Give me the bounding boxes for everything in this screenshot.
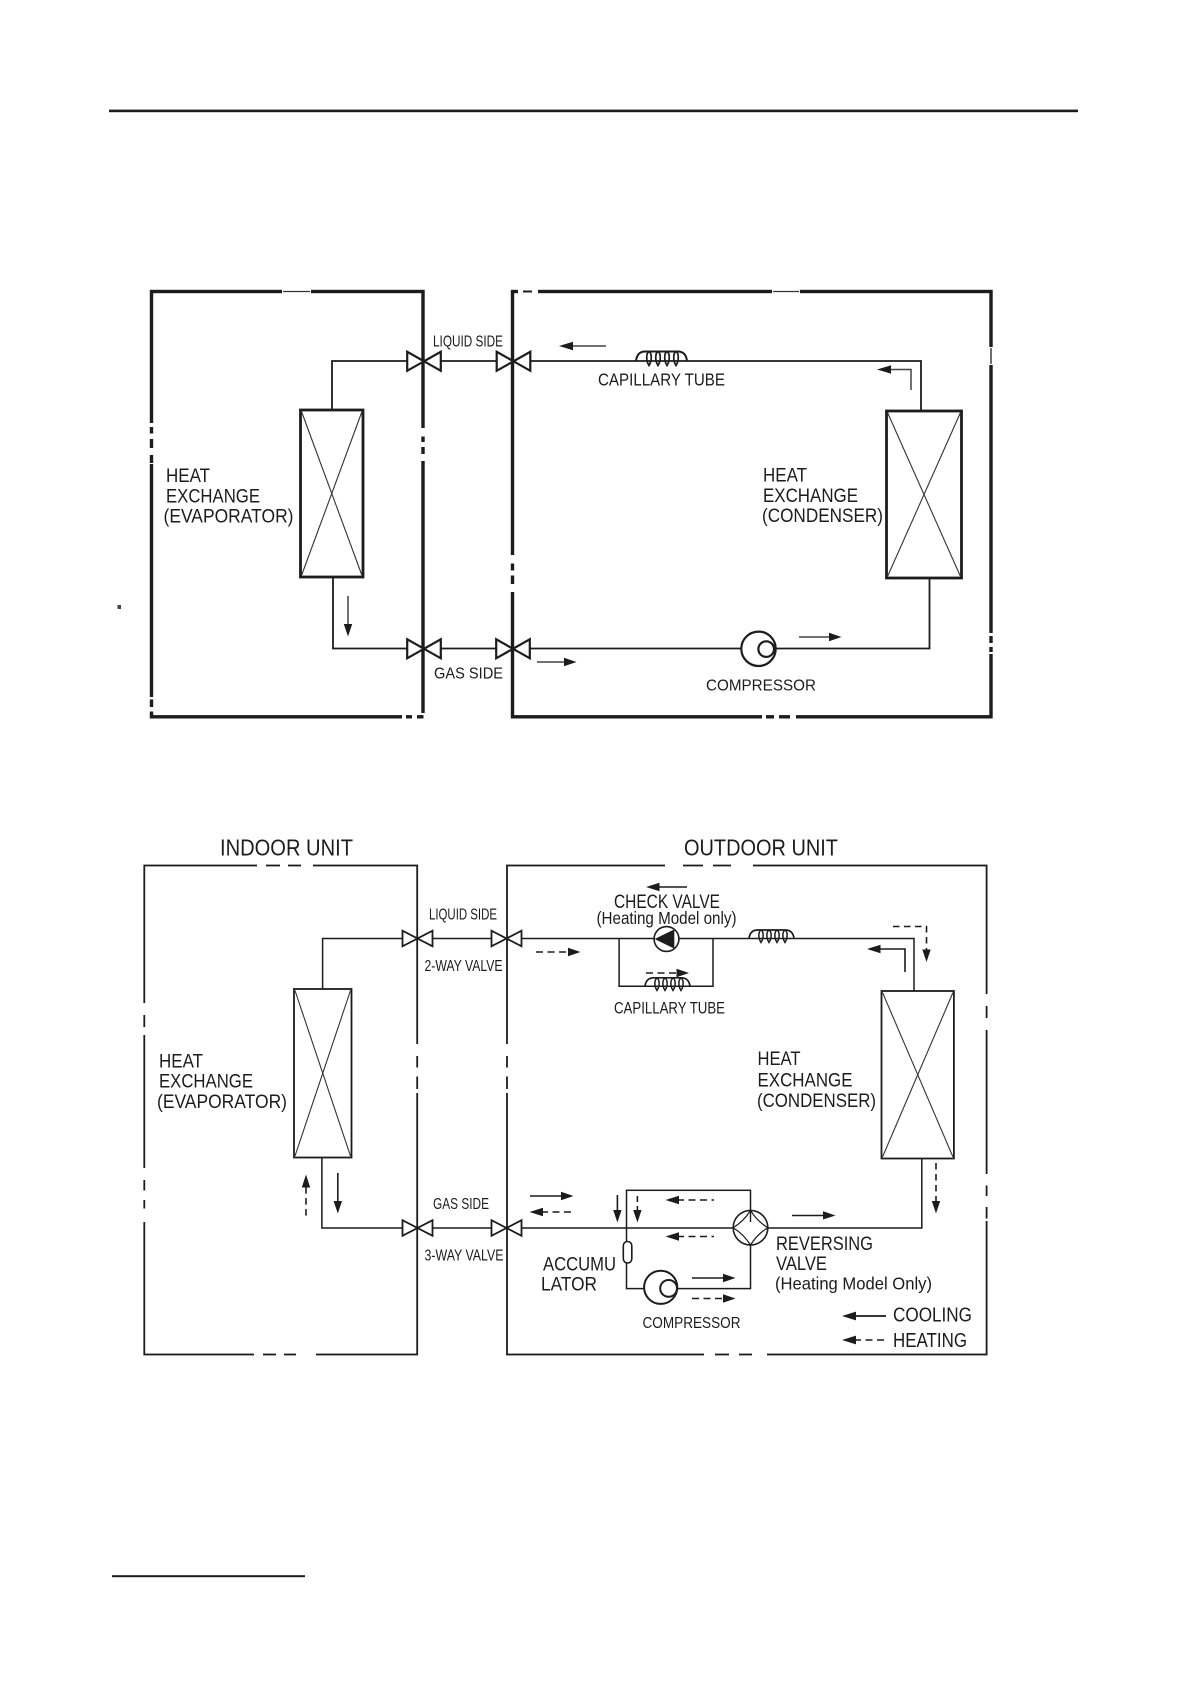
svg-text:(Heating Model only): (Heating Model only) <box>597 908 737 928</box>
indoor box break: bottom edge (fig2) <box>254 1352 316 1357</box>
svg-text:INDOOR UNIT: INDOOR UNIT <box>220 835 353 861</box>
dashed left arrow in loop top (heating) <box>666 1196 715 1204</box>
reversing valve loop rectangle (fig2) <box>627 1190 751 1288</box>
svg-text:2-WAY VALVE: 2-WAY VALVE <box>425 958 503 975</box>
svg-text:(Heating Model Only): (Heating Model Only) <box>775 1274 932 1294</box>
outdoor box break: right edge upper <box>987 347 995 365</box>
indoor box break: bottom edge near right corner <box>402 713 427 720</box>
gas line pipe (fig1) <box>333 577 930 649</box>
reversing valve (fig2) <box>733 1210 768 1245</box>
compressor (fig1) <box>741 632 775 666</box>
indoor box break: top edge <box>282 288 311 295</box>
outdoor box break: top edge <box>772 288 800 295</box>
indoor unit box (fig2) <box>144 866 417 1355</box>
indoor box break: top edge (fig2) <box>257 863 313 868</box>
outdoor unit box (fig2) <box>507 866 987 1355</box>
svg-text:(CONDENSER): (CONDENSER) <box>762 506 883 527</box>
svg-text:REVERSING: REVERSING <box>776 1234 873 1255</box>
capillary tube coil (fig1) <box>636 352 687 366</box>
svg-text:(EVAPORATOR): (EVAPORATOR) <box>157 1092 287 1113</box>
indoor box break: left edge middle <box>148 423 156 464</box>
indoor box break: left edge upper (fig2) <box>141 1003 148 1035</box>
dashed left arrow after 3-way valve (heating) <box>530 1208 575 1216</box>
liquid line pipe (fig2) <box>323 939 914 992</box>
indoor box break: right edge (fig2) <box>414 1044 421 1093</box>
svg-text:LATOR: LATOR <box>541 1274 597 1295</box>
liquid line pipe (fig1) <box>332 361 921 411</box>
heat exchanger evaporator (fig1) <box>301 410 364 577</box>
outdoor unit box (fig1) <box>513 292 992 717</box>
2-way service valve, liquid side (fig1) <box>407 352 441 371</box>
svg-text:ACCUMU: ACCUMU <box>543 1254 616 1275</box>
indoor box break: left edge lower (fig2) <box>141 1168 148 1222</box>
indoor box break: right edge below liquid valve <box>419 428 427 461</box>
outdoor valve, liquid side (fig2) <box>492 931 522 947</box>
outdoor valve, gas side (fig2) <box>492 1220 522 1236</box>
outdoor box break: bottom edge (fig2) <box>704 1352 767 1357</box>
svg-text:LIQUID SIDE: LIQUID SIDE <box>433 334 503 351</box>
solid left arrow above check valve (cooling flow) <box>646 883 687 891</box>
svg-text:HEAT: HEAT <box>166 466 210 487</box>
legend HEATING arrow <box>842 1336 886 1345</box>
solid right arrow after 3-way valve (cooling) <box>530 1192 574 1200</box>
compressor (fig2) <box>644 1271 677 1304</box>
3-way service valve, gas side (fig1) <box>407 639 441 658</box>
stray dot artifact <box>118 605 122 609</box>
accumulator (fig2) <box>623 1242 632 1264</box>
capillary tube coil in bypass (fig2) <box>645 978 690 991</box>
dashed down arrow right of condenser (heating) <box>932 1163 940 1214</box>
dashed right arrow from compressor (heating) <box>692 1294 736 1302</box>
svg-text:EXCHANGE: EXCHANGE <box>763 486 858 507</box>
heat exchanger condenser (fig1) <box>887 411 962 578</box>
outdoor box break: top edge near left corner <box>518 288 538 295</box>
outdoor box break: right edge upper (fig2) <box>983 994 990 1030</box>
outdoor box break: left edge <box>509 555 517 592</box>
down flow arrow below evaporator (fig1) <box>344 596 352 637</box>
svg-text:HEAT: HEAT <box>763 466 807 487</box>
svg-text:3-WAY VALVE: 3-WAY VALVE <box>425 1248 504 1265</box>
svg-text:EXCHANGE: EXCHANGE <box>166 486 260 507</box>
solid down arrow into accumulator line (cooling) <box>613 1195 621 1223</box>
outdoor valve, liquid side (fig1) <box>497 352 531 371</box>
footnote rule <box>112 1575 305 1577</box>
outdoor box break: left edge (fig2) <box>504 1044 511 1093</box>
check valve bypass loop (fig2) <box>619 939 713 987</box>
dashed right arrow in bypass (heating flow) <box>646 969 689 977</box>
outdoor box break: right edge lower (fig2) <box>983 1174 990 1221</box>
right flow arrow after compressor (fig1) <box>799 633 842 641</box>
svg-text:COOLING: COOLING <box>893 1305 972 1327</box>
svg-text:EXCHANGE: EXCHANGE <box>159 1072 253 1093</box>
svg-text:HEAT: HEAT <box>758 1049 801 1070</box>
3-way valve, gas side (fig2) <box>403 1220 433 1236</box>
outdoor box break: right edge lower <box>987 633 995 654</box>
gas line pipe (fig2) <box>322 1158 922 1229</box>
solid right arrow from compressor (cooling) <box>692 1274 736 1282</box>
header rule <box>109 110 1078 113</box>
solid down arrow below evaporator (fig2, cooling) <box>334 1173 342 1214</box>
solid right arrow after reversing valve (cooling) <box>792 1211 836 1219</box>
heat exchanger condenser (fig2) <box>882 991 954 1159</box>
heat exchanger evaporator (fig2) <box>294 989 352 1158</box>
2-way valve, liquid side (fig2) <box>403 931 433 947</box>
legend COOLING arrow <box>842 1312 886 1321</box>
flow arrow left, above liquid line (fig1) <box>559 342 606 350</box>
bent flow arrow at condenser top (fig1) <box>877 365 911 390</box>
svg-text:HEATING: HEATING <box>893 1330 967 1352</box>
dashed left arrow below gas line in loop (heating) <box>666 1232 715 1240</box>
right flow arrow after gas valve (fig1) <box>537 658 577 666</box>
dashed right arrow after 2-way valve (heating flow) <box>536 948 581 956</box>
indoor unit box (fig1) <box>152 292 424 717</box>
svg-text:OUTDOOR UNIT: OUTDOOR UNIT <box>684 835 838 861</box>
outdoor box break: bottom edge <box>762 713 796 720</box>
bent solid left arrow near condenser top (cooling flow) <box>867 945 905 972</box>
svg-text:HEAT: HEAT <box>159 1051 203 1072</box>
svg-text:EXCHANGE: EXCHANGE <box>758 1071 853 1092</box>
dashed down arrow into accumulator line (heating) <box>633 1196 641 1223</box>
outdoor valve, gas side (fig1) <box>496 639 530 658</box>
svg-text:CAPILLARY TUBE: CAPILLARY TUBE <box>614 999 725 1018</box>
svg-text:COMPRESSOR: COMPRESSOR <box>643 1315 741 1332</box>
svg-text:COMPRESSOR: COMPRESSOR <box>706 678 816 695</box>
svg-text:(EVAPORATOR): (EVAPORATOR) <box>164 507 294 528</box>
svg-text:GAS SIDE: GAS SIDE <box>434 666 503 683</box>
outdoor box break: top edge (fig2) <box>665 863 753 868</box>
svg-text:GAS SIDE: GAS SIDE <box>433 1196 489 1213</box>
svg-text:(CONDENSER): (CONDENSER) <box>757 1091 876 1112</box>
bent dashed arrow at condenser top (heating flow) <box>893 927 931 963</box>
check valve (fig2) <box>654 927 679 952</box>
svg-text:CAPILLARY TUBE: CAPILLARY TUBE <box>598 370 725 390</box>
indoor box break: left edge bottom <box>148 697 156 714</box>
capillary coil on main liquid line (fig2) <box>749 930 794 943</box>
dashed up arrow below evaporator (fig2, heating) <box>302 1175 310 1216</box>
svg-text:LIQUID SIDE: LIQUID SIDE <box>429 907 497 924</box>
svg-text:VALVE: VALVE <box>776 1254 827 1275</box>
